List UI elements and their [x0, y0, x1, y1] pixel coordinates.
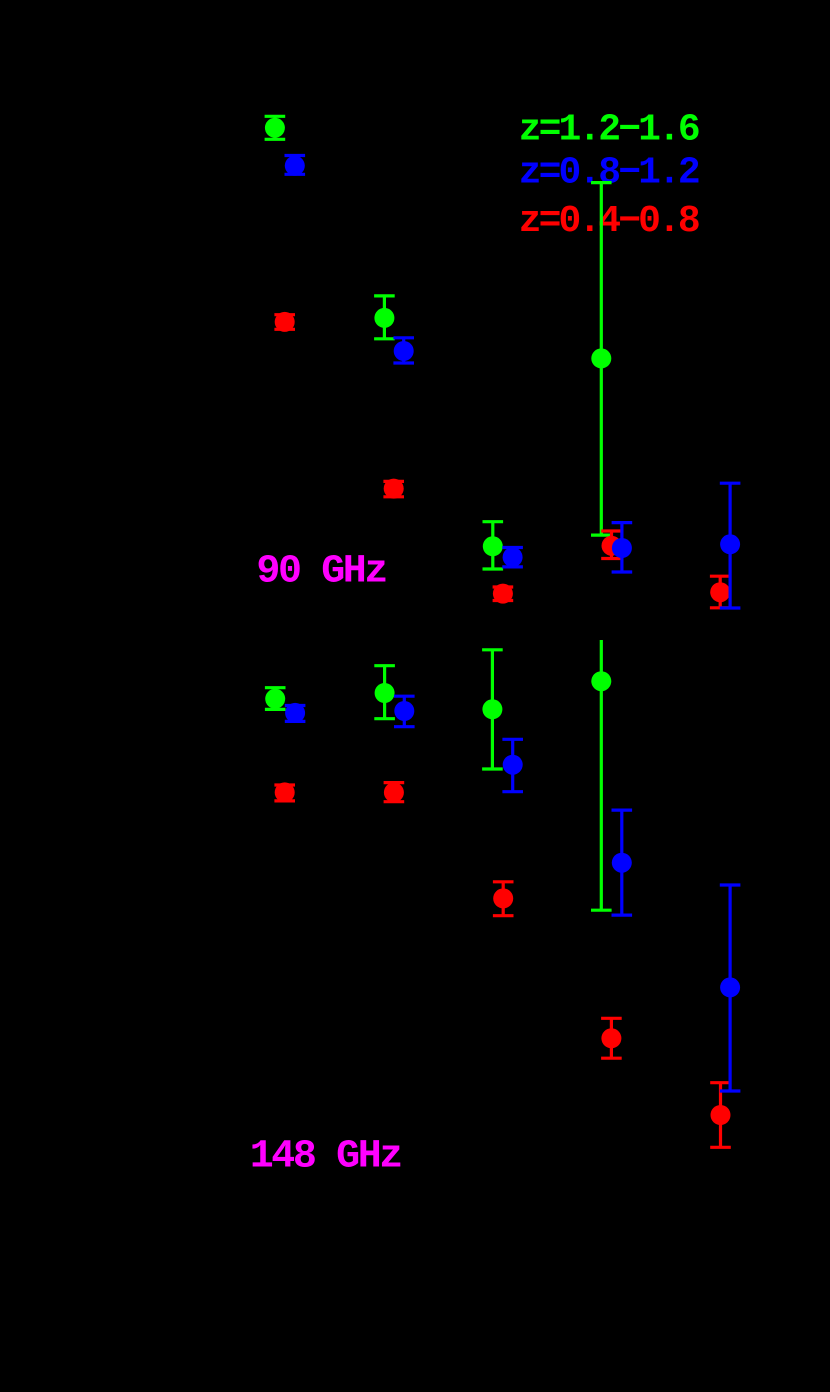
svg-text:90 GHz: 90 GHz: [256, 550, 386, 595]
data point R4 marker: [602, 536, 622, 556]
data point b2 error bar: [394, 696, 415, 727]
data point r3 error bar: [493, 882, 514, 916]
data point b3 marker: [503, 755, 523, 775]
data point G4 error bar: [591, 183, 612, 535]
data point b4 marker: [612, 853, 632, 873]
data point r5 marker: [711, 1105, 731, 1125]
data point G4 marker: [591, 348, 611, 368]
svg-text:z=0.8−1.2: z=0.8−1.2: [519, 151, 699, 194]
data point r4 error bar: [601, 1018, 622, 1058]
data point B3 error bar: [502, 548, 523, 567]
data point R5 marker: [710, 582, 730, 602]
data point G2 error bar: [374, 296, 395, 339]
data point B5 error bar: [720, 483, 741, 608]
data point b1 error bar: [285, 706, 306, 722]
data point r1 error bar: [274, 785, 295, 801]
data point r2 error bar: [384, 783, 405, 802]
data point b4 error bar: [612, 810, 633, 915]
data point G1 error bar: [265, 116, 286, 139]
data point b5 marker: [720, 977, 740, 997]
svg-text:z=0.4−0.8: z=0.4−0.8: [519, 200, 699, 243]
data point g1 marker: [265, 689, 285, 709]
data point r2 marker: [384, 782, 404, 802]
data point G2 marker: [374, 308, 394, 328]
data point B1 marker: [285, 156, 305, 176]
data point B1 error bar: [285, 156, 306, 175]
data point R3 marker: [493, 584, 513, 604]
data point B4 error bar: [612, 523, 633, 572]
svg-text:z=1.2−1.6: z=1.2−1.6: [519, 109, 699, 152]
data point g1 error bar: [265, 688, 286, 710]
data point G1 marker: [265, 118, 285, 138]
data point R4 error bar: [601, 531, 622, 559]
data point g4 error bar: [591, 640, 612, 910]
data point R1 error bar: [274, 315, 295, 330]
data point b1 marker: [285, 703, 305, 723]
data point R3 error bar: [493, 587, 514, 601]
data point r3 marker: [493, 888, 513, 908]
data point b5 error bar: [720, 885, 741, 1091]
data point R5 error bar: [710, 576, 731, 608]
data point g4 marker: [591, 671, 611, 691]
data point B4 marker: [612, 538, 632, 558]
data point B5 marker: [720, 534, 740, 554]
data point B2 error bar: [393, 338, 414, 363]
data point b2 marker: [394, 701, 414, 721]
data point r5 error bar: [710, 1083, 731, 1148]
data point g2 marker: [375, 683, 395, 703]
data point G3 marker: [483, 536, 503, 556]
data point B3 marker: [503, 547, 523, 567]
data point g3 error bar: [482, 650, 503, 769]
data point R2 marker: [384, 479, 404, 499]
data point R2 error bar: [383, 481, 404, 496]
data point g3 marker: [482, 699, 502, 719]
data point b3 error bar: [502, 739, 523, 791]
data point r4 marker: [601, 1028, 621, 1048]
data point r1 marker: [275, 782, 295, 802]
data point B2 marker: [394, 341, 414, 361]
data point R1 marker: [275, 312, 295, 332]
svg-text:148 GHz: 148 GHz: [250, 1135, 402, 1180]
data point g2 error bar: [374, 666, 395, 719]
data point G3 error bar: [483, 522, 504, 569]
